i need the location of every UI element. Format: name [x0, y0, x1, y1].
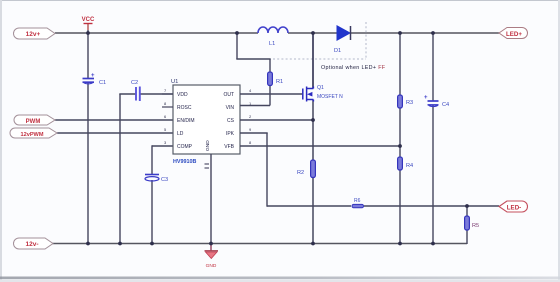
svg-text:Optional when LED+ FF: Optional when LED+ FF — [321, 65, 386, 71]
svg-text:VFB: VFB — [224, 144, 234, 150]
resistor R1 — [268, 72, 284, 86]
svg-text:+: + — [91, 73, 95, 79]
power VCC — [82, 17, 95, 30]
optional note dashed lines — [273, 22, 366, 59]
diode D1 — [334, 26, 351, 54]
svg-text:HV9910B: HV9910B — [173, 159, 196, 165]
svg-text:D1: D1 — [334, 48, 341, 54]
wire R5 branch — [466, 206, 468, 244]
svg-text:C3: C3 — [161, 177, 168, 183]
transistor Q1 MOSFET N — [303, 87, 314, 102]
svg-text:C4: C4 — [442, 102, 449, 108]
svg-text:GND: GND — [206, 263, 217, 269]
wire C4 vertical — [432, 33, 434, 244]
svg-text:PWM: PWM — [26, 119, 41, 125]
IC U1 box — [171, 79, 240, 154]
svg-text:OUT: OUT — [223, 92, 234, 98]
svg-text:CS: CS — [227, 118, 235, 124]
port 12vPWM — [10, 128, 57, 138]
svg-text:VIN: VIN — [226, 105, 235, 111]
svg-text:R2: R2 — [297, 170, 304, 176]
svg-text:12v-: 12v- — [25, 241, 38, 248]
wire OUT to gate — [240, 93, 302, 95]
wire VDD pin — [119, 93, 173, 95]
capacitor C3 — [145, 175, 168, 184]
inductor L1 — [258, 27, 288, 47]
resistor R6 inline — [352, 198, 364, 208]
svg-text:Q1: Q1 — [317, 85, 324, 91]
svg-text:VDD: VDD — [177, 92, 188, 98]
capacitor C2 — [131, 80, 140, 101]
svg-text:GND: GND — [205, 140, 211, 151]
wire VCC/C1 vertical — [87, 30, 89, 244]
resistor R5 — [465, 216, 480, 230]
wire IPK to LED- line — [240, 133, 268, 207]
wire bottom rail — [50, 243, 467, 245]
port LED+ — [499, 28, 528, 39]
svg-text:MOSFET N: MOSFET N — [317, 94, 343, 100]
svg-text:12vPWM: 12vPWM — [20, 132, 43, 138]
svg-text:C2: C2 — [131, 80, 138, 86]
svg-text:R4: R4 — [406, 163, 413, 169]
IC U1 pin names — [177, 92, 235, 151]
svg-text:+: + — [424, 95, 428, 101]
svg-text:EN/DIM: EN/DIM — [177, 118, 195, 124]
svg-text:ROSC: ROSC — [177, 105, 192, 111]
port 12v- — [14, 238, 54, 249]
wire COMP to C3 — [152, 145, 173, 243]
capacitor C1 — [83, 73, 107, 86]
svg-text:COMP: COMP — [177, 144, 193, 150]
wire VFB — [240, 145, 400, 147]
wire LED- return line — [267, 205, 499, 207]
svg-text:R3: R3 — [406, 100, 413, 106]
wire PWM to EN/DIM — [55, 119, 173, 121]
wire rail-to-R1 branch — [236, 33, 270, 106]
IC U1 pin numbers — [164, 88, 252, 145]
resistor R4 — [398, 157, 414, 170]
port LED- — [499, 201, 528, 212]
wire drain vertical — [312, 33, 314, 89]
svg-text:12v+: 12v+ — [26, 31, 41, 38]
IC left pin stubs — [162, 94, 173, 107]
wire 12vPWM to LD — [57, 132, 173, 134]
svg-text:U1: U1 — [171, 79, 178, 85]
svg-text:R5: R5 — [472, 223, 479, 229]
optional note text — [321, 65, 386, 71]
GND pin number ticks — [205, 164, 210, 168]
transistor Q1 labels — [317, 85, 343, 100]
wire C2 branch vertical — [119, 94, 121, 244]
svg-text:R1: R1 — [276, 79, 283, 85]
port PWM — [14, 115, 55, 125]
port 12v+ — [14, 28, 56, 39]
wire top rail — [55, 32, 499, 34]
svg-text:L1: L1 — [269, 41, 275, 47]
wire GND pin — [210, 154, 212, 244]
svg-text:C1: C1 — [99, 80, 106, 86]
svg-text:LED+: LED+ — [506, 31, 522, 38]
svg-text:IPK: IPK — [226, 131, 235, 137]
capacitor C4 — [424, 95, 449, 108]
svg-text:LED-: LED- — [507, 205, 521, 212]
resistor R3 — [398, 95, 414, 108]
resistor R2 — [297, 160, 315, 178]
svg-text:LD: LD — [177, 131, 184, 137]
ground GND — [205, 244, 219, 270]
svg-text:VCC: VCC — [82, 17, 95, 23]
wire divider vertical — [399, 33, 401, 244]
wire source to R2 to rail — [312, 100, 314, 244]
svg-text:R6: R6 — [354, 198, 361, 204]
wire CS — [240, 119, 313, 121]
